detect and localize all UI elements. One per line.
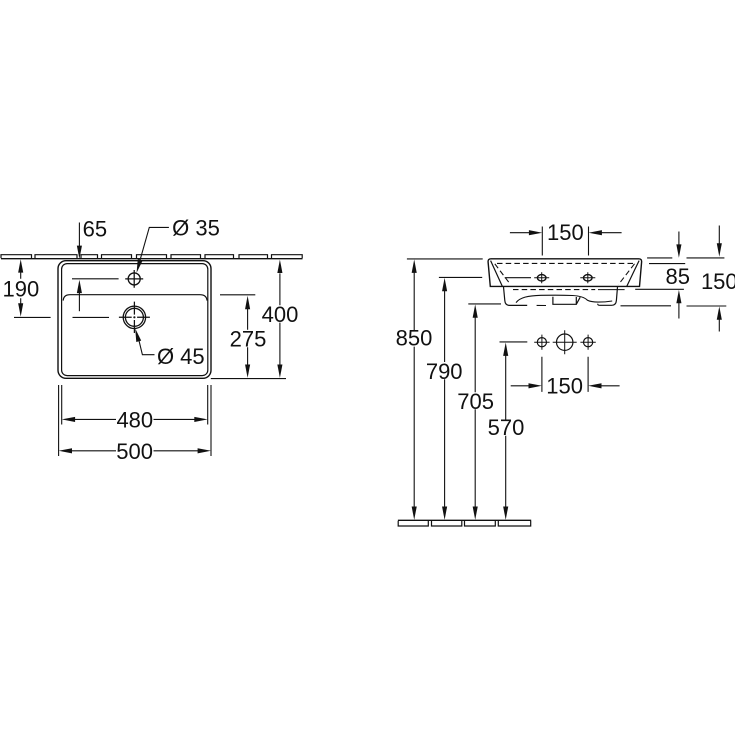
fixing hole level line: [505, 277, 531, 279]
trap mid bottom segment: [537, 304, 546, 306]
extension line 275 top: [220, 294, 255, 296]
svg-text:150: 150: [546, 373, 583, 398]
svg-text:150: 150: [547, 220, 584, 245]
dimension 190: [18, 259, 23, 316]
dimension 65: [77, 223, 82, 312]
basin inner rim line: [62, 264, 208, 376]
extension line 790: [439, 276, 482, 278]
trap top right edge: [598, 289, 625, 291]
svg-text:Ø 35: Ø 35: [172, 216, 220, 241]
svg-text:480: 480: [116, 408, 153, 433]
svg-text:850: 850: [396, 326, 433, 351]
dimension 790: [442, 278, 447, 520]
tap hole: [125, 270, 143, 288]
extension verticals 480: [62, 385, 208, 425]
svg-text:65: 65: [83, 216, 107, 241]
hidden rim dashed lines: [495, 263, 635, 289]
wall tile segments: [1, 255, 302, 259]
trap outlet tab: [553, 297, 580, 305]
dimension 275: [245, 296, 250, 378]
svg-text:275: 275: [230, 327, 267, 352]
dimension right 150: [717, 226, 722, 332]
extension verticals 500: [59, 385, 211, 456]
dimension 480: [62, 417, 208, 422]
wall line: [1, 258, 303, 260]
dimension 85: [676, 232, 681, 319]
floor line: [398, 519, 531, 521]
upper fixing hole left: [534, 272, 549, 283]
floor tile segments: [398, 521, 531, 526]
upper fixing hole right: [580, 272, 595, 283]
extension verticals lower 150: [542, 357, 588, 392]
drain hole: [119, 302, 150, 333]
dimension 850: [412, 260, 417, 520]
dimension 500: [59, 448, 211, 453]
svg-text:570: 570: [488, 415, 525, 440]
lower dimension 150: [511, 383, 620, 388]
extension lines right 150: [621, 258, 727, 306]
trap right foot: [598, 287, 618, 306]
lower fixing hole right: [580, 335, 595, 350]
extension line bottom 400: [211, 378, 286, 380]
extension line 570: [500, 341, 528, 343]
extension line 850 top: [407, 258, 483, 260]
extension line 705: [468, 303, 501, 305]
top dimension 150: [510, 230, 622, 235]
basin outer outline: [58, 261, 211, 379]
svg-text:Ø 45: Ø 45: [157, 344, 205, 369]
leader and label D35: [137, 227, 169, 272]
trap left foot: [504, 287, 528, 306]
svg-text:500: 500: [116, 439, 153, 464]
svg-text:150: 150: [701, 269, 735, 294]
dimension 705: [473, 304, 478, 520]
svg-text:190: 190: [3, 277, 40, 302]
dimension 570: [503, 343, 508, 520]
drain center extension lines: [14, 316, 109, 318]
leader and label D45: [135, 328, 154, 354]
lower drain hole center: [553, 330, 577, 354]
tap hole center extension line: [72, 278, 119, 280]
svg-text:705: 705: [457, 389, 494, 414]
bowl back edge line: [63, 295, 207, 301]
extension verticals top 150: [542, 227, 588, 256]
dimension 400: [277, 260, 282, 378]
svg-text:85: 85: [666, 264, 690, 289]
basin corner edges: [491, 261, 639, 287]
svg-text:400: 400: [262, 302, 299, 327]
trap front curve: [516, 295, 612, 302]
lower fixing hole left: [534, 335, 549, 350]
svg-text:790: 790: [426, 359, 463, 384]
basin front outline: [488, 259, 642, 287]
extension lines 85: [635, 258, 685, 289]
